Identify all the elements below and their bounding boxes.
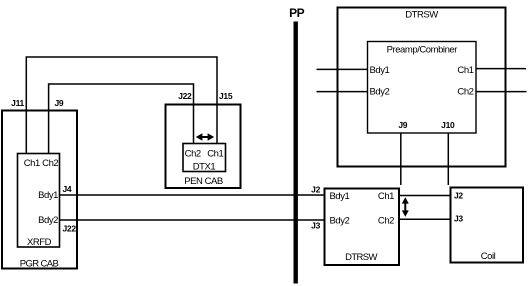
DTX1 unit [183,144,226,172]
svg-text:Ch1: Ch1 [457,65,473,76]
XRFD unit [18,154,60,248]
svg-text:Bdy1: Bdy1 [38,190,58,201]
wire W3: XRFD Bdy1 (J4) to DTRSW Bdy1 (J2) [60,194,326,196]
svg-text:Bdy1: Bdy1 [330,191,350,202]
wire W8: Preamp/Combiner Ch2 output [476,91,527,93]
svg-text:DTRSW: DTRSW [405,9,438,20]
wire W2: PGR CAB J9 to PEN CAB J22 (DTX1 Ch2) [49,84,194,154]
svg-text:Preamp/Combiner: Preamp/Combiner [387,45,458,56]
bidirectional arrow A1: DTX1 channel swap [196,133,214,140]
wire W12: DTRSW Ch2 to Coil J3 [399,218,451,220]
svg-text:PP: PP [289,6,305,20]
svg-text:J3: J3 [454,213,463,223]
svg-text:Ch2: Ch2 [185,149,201,160]
svg-text:J9: J9 [398,120,407,130]
svg-text:XRFD: XRFD [27,237,52,248]
svg-text:J4: J4 [63,184,72,194]
bidirectional arrow A2: DTRSW channel swap [402,197,409,216]
wire W1: PGR CAB J11 to PEN CAB J15 (DTX1 Ch1) [26,57,217,154]
wire W5: Preamp/Combiner Bdy1 stub [317,68,368,70]
wire W10: Preamp/Combiner J10 down [447,133,449,185]
svg-text:J2: J2 [454,191,463,201]
svg-text:Bdy1: Bdy1 [370,65,390,76]
wire W11: DTRSW Ch1 to Coil J2 [399,195,451,197]
svg-text:J10: J10 [441,120,455,130]
wire W7: Preamp/Combiner Ch1 output [476,68,526,70]
svg-text:J2: J2 [311,184,320,194]
svg-text:Ch1: Ch1 [24,158,40,169]
PP patch panel line [294,22,298,284]
svg-text:J3: J3 [311,221,320,231]
svg-text:Ch2: Ch2 [378,215,394,226]
svg-text:J11: J11 [11,98,24,108]
svg-text:Ch1: Ch1 [207,149,223,160]
svg-text:Coil: Coil [481,251,496,262]
svg-text:Bdy2: Bdy2 [330,215,350,226]
svg-text:Bdy2: Bdy2 [370,87,390,98]
svg-text:J9: J9 [55,98,64,108]
PEN CAB enclosure [166,105,241,189]
wire W9: Preamp/Combiner J9 down [400,133,402,185]
svg-text:Ch2: Ch2 [42,158,58,169]
wire W4: XRFD Bdy2 (J22) to DTRSW Bdy2 (J3) [60,219,326,221]
svg-text:J22: J22 [178,91,192,101]
PGR CAB enclosure [2,111,77,269]
Coil unit [451,188,524,263]
DTRSW (top) enclosure [338,8,506,167]
wire W6: Preamp/Combiner Bdy2 stub [317,91,368,93]
svg-text:PEN CAB: PEN CAB [184,176,223,187]
svg-text:J15: J15 [219,91,233,101]
Preamp/Combiner unit [368,42,477,134]
svg-text:Ch1: Ch1 [378,191,394,202]
svg-text:Ch2: Ch2 [457,87,473,98]
svg-text:Bdy2: Bdy2 [38,215,58,226]
svg-text:DTX1: DTX1 [193,162,216,173]
svg-text:PGR CAB: PGR CAB [20,258,59,269]
svg-text:J22: J22 [63,224,77,234]
svg-text:DTRSW: DTRSW [345,252,377,263]
DTRSW (bottom) unit [325,189,400,266]
